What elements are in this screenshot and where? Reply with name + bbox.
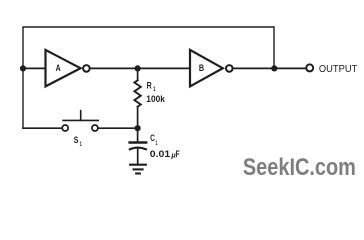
svg-text:OUTPUT: OUTPUT bbox=[319, 63, 358, 75]
svg-text:SeekIC.com: SeekIC.com bbox=[243, 154, 356, 181]
ground bbox=[130, 164, 146, 166]
svg-text:0.01: 0.01 bbox=[150, 149, 170, 159]
wire top feedback bbox=[23, 27, 274, 128]
svg-text:S: S bbox=[74, 135, 79, 145]
svg-text:A: A bbox=[56, 63, 61, 74]
node OUTPUT terminal bbox=[306, 64, 313, 71]
wire switch left bbox=[23, 127, 62, 129]
wire R1 bottom lead bbox=[137, 107, 139, 129]
svg-text:R: R bbox=[147, 80, 152, 90]
svg-text:B: B bbox=[199, 63, 204, 74]
wire A output to B input bbox=[90, 67, 190, 69]
wire switch right bbox=[98, 127, 137, 129]
wire C1 top lead bbox=[137, 128, 139, 141]
svg-text:100k: 100k bbox=[146, 93, 165, 104]
switch S1 bbox=[62, 125, 68, 131]
capacitor C1 bbox=[130, 141, 147, 143]
op-amp U2 inverter B bbox=[190, 50, 223, 87]
node bottom junction bbox=[135, 125, 141, 131]
node R1-top junction bbox=[135, 65, 141, 71]
resistor R1 bbox=[134, 80, 140, 106]
wire R1 top lead bbox=[137, 68, 139, 80]
svg-text:1: 1 bbox=[155, 140, 157, 147]
wire A input bbox=[23, 67, 46, 69]
wire B output bbox=[232, 67, 305, 69]
wire C1 bottom lead bbox=[137, 149, 139, 164]
svg-text:1: 1 bbox=[80, 141, 82, 148]
svg-text:F: F bbox=[176, 149, 180, 159]
node A-input junction bbox=[20, 65, 26, 71]
op-amp U1 inverter A bbox=[46, 50, 81, 87]
node feedback junction bbox=[271, 65, 277, 71]
